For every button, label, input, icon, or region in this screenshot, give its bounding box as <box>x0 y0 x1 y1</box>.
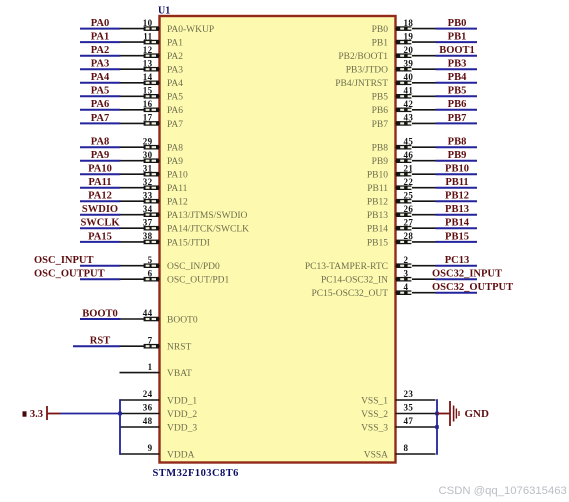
net label PA6 <box>91 99 109 110</box>
wire net PB8 (right) <box>436 146 478 148</box>
pin 32 (PA11) left side <box>120 177 188 194</box>
pin 35 (VSS_2) right side <box>361 403 435 420</box>
net label PB8 <box>448 137 467 148</box>
svg-text:PA14/JTCK/SWCLK: PA14/JTCK/SWCLK <box>167 225 249 235</box>
svg-text:PB10: PB10 <box>367 171 388 181</box>
svg-text:PB12: PB12 <box>367 198 388 208</box>
svg-text:PB14: PB14 <box>445 218 470 229</box>
svg-text:8: 8 <box>404 443 409 453</box>
svg-text:STM32F103C8T6: STM32F103C8T6 <box>153 468 239 479</box>
svg-text:PA12: PA12 <box>88 191 112 202</box>
svg-text:PB0: PB0 <box>448 18 467 29</box>
svg-text:PA9: PA9 <box>91 150 109 161</box>
pin 9 (VDDA) left side <box>120 443 195 460</box>
net label PA2 <box>91 45 109 56</box>
svg-text:PA4: PA4 <box>91 72 110 83</box>
svg-text:OSC_OUTPUT: OSC_OUTPUT <box>34 269 105 280</box>
wire net PA12 (left) <box>80 200 120 202</box>
svg-text:43: 43 <box>404 113 414 123</box>
net label SWDIO <box>82 204 118 215</box>
svg-text:BOOT0: BOOT0 <box>167 315 198 325</box>
svg-text:2: 2 <box>404 255 409 265</box>
wire net PB11 (right) <box>436 187 478 189</box>
svg-text:NRST: NRST <box>167 343 191 353</box>
svg-text:PB15: PB15 <box>367 238 388 248</box>
net label PA7 <box>91 113 109 124</box>
svg-text:42: 42 <box>404 99 414 109</box>
pin 33 (PA12) left side <box>120 190 189 207</box>
svg-text:6: 6 <box>148 268 153 278</box>
wire net PB6 (right) <box>436 109 478 111</box>
pin 42 (PB6) right side <box>372 99 436 116</box>
net label RST <box>90 336 110 347</box>
wire net SWDIO (left) <box>80 214 120 216</box>
svg-text:PA15: PA15 <box>88 231 112 242</box>
wire net PB9 (right) <box>436 160 478 162</box>
pin 34 (PA13/JTMS/SWDIO) left side <box>120 204 248 221</box>
svg-text:19: 19 <box>404 31 414 41</box>
svg-text:40: 40 <box>404 72 414 82</box>
net label OSC32_OUTPUT <box>432 282 513 293</box>
svg-text:PB8: PB8 <box>372 144 389 154</box>
pin 26 (PB13) right side <box>367 204 436 221</box>
svg-text:32: 32 <box>143 177 153 187</box>
svg-text:41: 41 <box>404 86 414 96</box>
pin 31 (PA10) left side <box>120 163 189 180</box>
svg-text:PB8: PB8 <box>448 137 467 148</box>
net label PB11 <box>445 177 468 188</box>
pin 4 (PC15-OSC32_OUT) right side <box>311 282 435 299</box>
svg-text:PB1: PB1 <box>448 32 467 43</box>
pin 27 (PB14) right side <box>367 217 436 234</box>
svg-text:27: 27 <box>404 217 414 227</box>
wire net PB14 (right) <box>436 227 478 229</box>
svg-text:VDD_1: VDD_1 <box>167 396 197 406</box>
svg-text:36: 36 <box>143 403 153 413</box>
net label BOOT0 <box>82 308 118 319</box>
wire net PA7 (left) <box>80 122 120 124</box>
svg-text:PA2: PA2 <box>91 45 109 56</box>
svg-text:PB13: PB13 <box>367 211 388 221</box>
svg-text:28: 28 <box>404 231 414 241</box>
svg-text:PA7: PA7 <box>167 120 183 130</box>
U1 designator <box>158 6 170 17</box>
ground GND wire <box>437 413 450 415</box>
pin 40 (PB4/JNTRST) right side <box>335 72 435 89</box>
pin 8 (VSSA) right side <box>364 443 436 460</box>
svg-text:RST: RST <box>90 336 110 347</box>
net label PB10 <box>445 164 469 175</box>
svg-text:10: 10 <box>143 18 153 28</box>
IC U1 STM32F103C8T6 body <box>160 16 396 463</box>
net label PB14 <box>445 218 470 229</box>
pin 17 (PA7) left side <box>120 113 184 130</box>
net label PA12 <box>88 191 112 202</box>
wire net PB7 (right) <box>436 122 478 124</box>
svg-text:PB6: PB6 <box>448 99 467 110</box>
svg-text:PA1: PA1 <box>167 39 183 49</box>
net label PC13 <box>445 255 470 266</box>
svg-text:CSDN @qq_1076315463: CSDN @qq_1076315463 <box>439 485 567 497</box>
wire net PB0 (right) <box>436 28 478 30</box>
pin 43 (PB7) right side <box>372 113 436 130</box>
net label PA4 <box>91 72 110 83</box>
pin 16 (PA6) left side <box>120 99 184 116</box>
svg-text:PA2: PA2 <box>167 52 183 62</box>
svg-text:PB4: PB4 <box>448 72 467 83</box>
svg-text:PB4/JNTRST: PB4/JNTRST <box>335 79 388 89</box>
svg-text:PA5: PA5 <box>91 86 109 97</box>
pin 41 (PB5) right side <box>372 86 436 103</box>
wire net PA2 (left) <box>80 55 120 57</box>
wire net PB1 (right) <box>436 41 478 43</box>
svg-text:PA0-WKUP: PA0-WKUP <box>167 25 214 35</box>
net label PB3 <box>448 59 467 70</box>
pin 36 (VDD_2) left side <box>120 403 198 420</box>
pin 19 (PB1) right side <box>372 31 436 48</box>
svg-text:PC15-OSC32_OUT: PC15-OSC32_OUT <box>311 289 388 299</box>
pin 21 (PB10) right side <box>367 163 436 180</box>
pin 22 (PB11) right side <box>367 177 435 194</box>
net label PA15 <box>88 231 112 242</box>
pin 20 (PB2/BOOT1) right side <box>338 45 435 62</box>
svg-text:48: 48 <box>143 416 153 426</box>
svg-text:VDD_2: VDD_2 <box>167 410 197 420</box>
svg-text:29: 29 <box>143 136 153 146</box>
wire net OSC32_OUTPUT (right) <box>436 292 478 294</box>
svg-text:PC14-OSC32_IN: PC14-OSC32_IN <box>321 276 388 286</box>
svg-text:PA10: PA10 <box>88 164 112 175</box>
pin 11 (PA1) left side <box>120 31 184 48</box>
svg-text:47: 47 <box>404 416 414 426</box>
svg-text:PA6: PA6 <box>91 99 109 110</box>
svg-text:VSS_1: VSS_1 <box>361 396 388 406</box>
svg-text:24: 24 <box>143 389 153 399</box>
wire net PB12 (right) <box>436 200 478 202</box>
pin 45 (PB8) right side <box>372 136 436 153</box>
net label PA8 <box>91 137 109 148</box>
svg-text:PB5: PB5 <box>448 86 467 97</box>
svg-text:PB9: PB9 <box>372 157 389 167</box>
net label PB0 <box>448 18 467 29</box>
svg-text:38: 38 <box>143 231 153 241</box>
net label BOOT1 <box>439 45 475 56</box>
pin 14 (PA4) left side <box>120 72 184 89</box>
svg-text:PA1: PA1 <box>91 32 109 43</box>
svg-text:SWDIO: SWDIO <box>82 204 118 215</box>
svg-text:33: 33 <box>143 190 153 200</box>
pin 6 (OSC_OUT/PD1) left side <box>120 268 230 285</box>
net label PA11 <box>88 177 111 188</box>
pin 46 (PB9) right side <box>372 150 436 167</box>
svg-text:16: 16 <box>143 99 153 109</box>
wire net PA9 (left) <box>80 160 120 162</box>
wire net OSC_OUTPUT (left) <box>80 278 120 280</box>
svg-text:PA11: PA11 <box>167 184 188 194</box>
svg-text:46: 46 <box>404 150 414 160</box>
pin 25 (PB12) right side <box>367 190 436 207</box>
wire net OSC32_INPUT (right) <box>436 278 478 280</box>
svg-text:22: 22 <box>404 177 414 187</box>
svg-text:OSC_IN/PD0: OSC_IN/PD0 <box>167 262 220 272</box>
pin 12 (PA2) left side <box>120 45 184 62</box>
svg-text:12: 12 <box>143 45 153 55</box>
pin 18 (PB0) right side <box>372 18 436 35</box>
net label PB1 <box>448 32 467 43</box>
pin 39 (PB3/JTDO) right side <box>346 58 436 75</box>
power port 3.3V bar symbol <box>47 406 61 420</box>
net label OSC32_INPUT <box>432 269 502 280</box>
pin 15 (PA5) left side <box>120 86 184 103</box>
svg-text:PB6: PB6 <box>372 106 389 116</box>
svg-text:31: 31 <box>143 163 153 173</box>
net label PB6 <box>448 99 467 110</box>
wire net PA6 (left) <box>80 109 120 111</box>
wire net PA4 (left) <box>80 82 120 84</box>
svg-text:34: 34 <box>143 204 153 214</box>
net label PB12 <box>445 191 469 202</box>
wire net PB3 (right) <box>436 68 478 70</box>
ground GND symbol <box>450 401 459 426</box>
wire net BOOT1 (right) <box>436 55 478 57</box>
wire net PB10 (right) <box>436 173 478 175</box>
net label PA1 <box>91 32 109 43</box>
svg-text:BOOT0: BOOT0 <box>82 308 118 319</box>
svg-text:3: 3 <box>404 268 409 278</box>
wire net PA3 (left) <box>80 68 120 70</box>
net label PA0 <box>91 18 109 29</box>
net label PB9 <box>448 150 467 161</box>
wire net SWCLK (left) <box>80 227 120 229</box>
svg-text:PA8: PA8 <box>167 144 183 154</box>
svg-text:PB1: PB1 <box>372 39 389 49</box>
net label PB15 <box>445 231 469 242</box>
wire net PA1 (left) <box>80 41 120 43</box>
svg-text:PB3/JTDO: PB3/JTDO <box>346 66 388 76</box>
wire net PB4 (right) <box>436 82 478 84</box>
svg-text:44: 44 <box>143 308 153 318</box>
wire net BOOT0 (left) <box>80 318 120 320</box>
wire net PC13 (right) <box>436 265 478 267</box>
pin 10 (PA0-WKUP) left side <box>120 18 215 35</box>
svg-text:18: 18 <box>404 18 414 28</box>
wire net PA8 (left) <box>80 146 120 148</box>
svg-text:1: 1 <box>148 362 153 372</box>
svg-text:PA5: PA5 <box>167 93 183 103</box>
net label PB5 <box>448 86 467 97</box>
pin 28 (PB15) right side <box>367 231 436 248</box>
svg-text:PC13: PC13 <box>445 255 470 266</box>
net label OSC_OUTPUT <box>34 269 105 280</box>
svg-text:PA0: PA0 <box>91 18 109 29</box>
wire net PA15 (left) <box>80 241 120 243</box>
svg-text:OSC32_INPUT: OSC32_INPUT <box>432 269 502 280</box>
junction dot VSS bus at VSS_3 <box>435 425 439 429</box>
junction dot VSS bus at GND wire <box>435 412 439 416</box>
junction dot VDD bus at 3.3V rail <box>118 412 122 416</box>
wire net PB15 (right) <box>436 241 478 243</box>
pin 38 (PA15/JTDI) left side <box>120 231 210 248</box>
svg-text:PA10: PA10 <box>167 171 188 181</box>
svg-text:25: 25 <box>404 190 414 200</box>
wire net PA10 (left) <box>80 173 120 175</box>
net label PA3 <box>91 59 109 70</box>
net label PA9 <box>91 150 109 161</box>
svg-text:SWCLK: SWCLK <box>80 218 120 229</box>
svg-text:PB0: PB0 <box>372 25 389 35</box>
svg-text:37: 37 <box>143 217 153 227</box>
svg-text:PA13/JTMS/SWDIO: PA13/JTMS/SWDIO <box>167 211 248 221</box>
svg-text:45: 45 <box>404 136 414 146</box>
pin 47 (VSS_3) right side <box>361 416 435 433</box>
svg-text:PB9: PB9 <box>448 150 467 161</box>
svg-text:PB7: PB7 <box>372 120 389 130</box>
svg-text:VDD_3: VDD_3 <box>167 423 197 433</box>
svg-text:PA3: PA3 <box>91 59 109 70</box>
svg-text:20: 20 <box>404 45 414 55</box>
ground net label GND <box>465 408 490 420</box>
wire net PA0 (left) <box>80 28 120 30</box>
svg-text:PA8: PA8 <box>91 137 109 148</box>
svg-text:PA6: PA6 <box>167 106 183 116</box>
svg-text:PB5: PB5 <box>372 93 389 103</box>
wire net PB5 (right) <box>436 95 478 97</box>
net label PB7 <box>448 113 467 124</box>
pin 44 (BOOT0) left side <box>120 308 198 325</box>
pin 30 (PA9) left side <box>120 150 184 167</box>
svg-text:VBAT: VBAT <box>167 369 192 379</box>
pin 1 (VBAT) left side <box>120 362 193 379</box>
svg-text:3.3: 3.3 <box>30 409 43 420</box>
svg-text:35: 35 <box>404 403 414 413</box>
net label PA5 <box>91 86 109 97</box>
svg-text:PA9: PA9 <box>167 157 183 167</box>
svg-text:26: 26 <box>404 204 414 214</box>
wire net PA11 (left) <box>80 187 120 189</box>
wire net OSC_INPUT (left) <box>80 265 120 267</box>
wire VDD vertical bus (left) <box>119 399 121 455</box>
net label SWCLK <box>80 218 120 229</box>
wire VSS vertical bus (right) <box>436 399 438 455</box>
svg-text:7: 7 <box>148 335 153 345</box>
svg-text:PA11: PA11 <box>88 177 111 188</box>
pin 2 (PC13-TAMPER-RTC) right side <box>305 255 436 272</box>
pin 29 (PA8) left side <box>120 136 184 153</box>
watermark text <box>439 485 567 497</box>
svg-text:VSS_3: VSS_3 <box>361 423 388 433</box>
svg-text:PA3: PA3 <box>167 66 183 76</box>
net label PA10 <box>88 164 112 175</box>
svg-text:PB3: PB3 <box>448 59 467 70</box>
svg-text:OSC_INPUT: OSC_INPUT <box>34 255 94 266</box>
pin 37 (PA14/JTCK/SWCLK) left side <box>120 217 250 234</box>
svg-text:BOOT1: BOOT1 <box>439 45 475 56</box>
svg-text:13: 13 <box>143 58 153 68</box>
pin 7 (NRST) left side <box>120 335 192 352</box>
pin 24 (VDD_1) left side <box>120 389 198 406</box>
svg-text:PA4: PA4 <box>167 79 183 89</box>
svg-text:14: 14 <box>143 72 153 82</box>
svg-text:PB2/BOOT1: PB2/BOOT1 <box>338 52 388 62</box>
wire net RST (left) <box>73 345 120 347</box>
svg-text:PB13: PB13 <box>445 204 469 215</box>
U1 value STM32F103C8T6 <box>153 468 239 479</box>
svg-text:PB10: PB10 <box>445 164 469 175</box>
svg-text:4: 4 <box>404 282 409 292</box>
svg-text:PB11: PB11 <box>367 184 388 194</box>
svg-text:PB12: PB12 <box>445 191 469 202</box>
net label PB13 <box>445 204 469 215</box>
svg-text:PC13-TAMPER-RTC: PC13-TAMPER-RTC <box>305 262 388 272</box>
svg-text:PA7: PA7 <box>91 113 109 124</box>
svg-text:PB15: PB15 <box>445 231 469 242</box>
power net label 3.3 <box>23 409 44 420</box>
pin 3 (PC14-OSC32_IN) right side <box>321 268 436 285</box>
svg-text:OSC32_OUTPUT: OSC32_OUTPUT <box>432 282 513 293</box>
svg-text:PB7: PB7 <box>448 113 467 124</box>
svg-text:PA15/JTDI: PA15/JTDI <box>167 238 210 248</box>
svg-text:PA12: PA12 <box>167 198 188 208</box>
svg-text:PB14: PB14 <box>367 225 388 235</box>
svg-text:15: 15 <box>143 86 153 96</box>
svg-text:5: 5 <box>148 255 153 265</box>
net label PB4 <box>448 72 467 83</box>
pin 23 (VSS_1) right side <box>361 389 435 406</box>
pin 5 (OSC_IN/PD0) left side <box>120 255 221 272</box>
svg-text:11: 11 <box>143 31 152 41</box>
net label OSC_INPUT <box>34 255 94 266</box>
svg-text:OSC_OUT/PD1: OSC_OUT/PD1 <box>167 276 230 286</box>
power port 3.3V wire <box>61 413 121 415</box>
wire net PA5 (left) <box>80 95 120 97</box>
svg-text:VSSA: VSSA <box>364 450 388 460</box>
svg-text:9: 9 <box>148 443 153 453</box>
svg-text:39: 39 <box>404 58 414 68</box>
svg-text:VSS_2: VSS_2 <box>361 410 388 420</box>
svg-text:17: 17 <box>143 113 153 123</box>
svg-text:GND: GND <box>465 408 490 420</box>
svg-text:VDDA: VDDA <box>167 450 195 460</box>
svg-text:30: 30 <box>143 150 153 160</box>
svg-text:21: 21 <box>404 163 414 173</box>
wire net PB13 (right) <box>436 214 478 216</box>
pin 48 (VDD_3) left side <box>120 416 198 433</box>
svg-text:U1: U1 <box>158 6 170 17</box>
svg-text:23: 23 <box>404 389 414 399</box>
svg-text:PB11: PB11 <box>445 177 468 188</box>
pin 13 (PA3) left side <box>120 58 184 75</box>
